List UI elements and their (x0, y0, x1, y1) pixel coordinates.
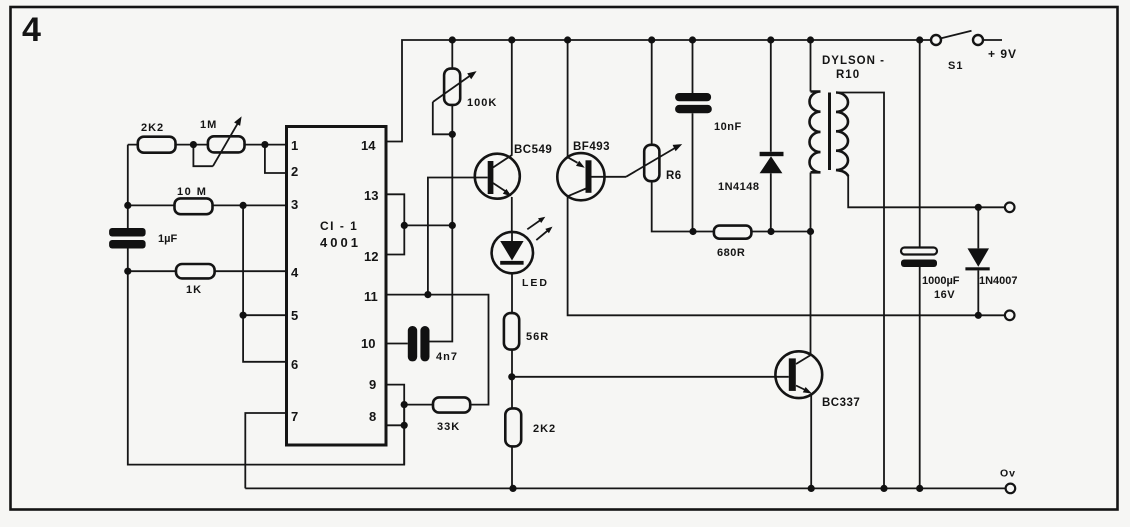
svg-text:10: 10 (361, 336, 375, 351)
svg-text:+ 9V: + 9V (988, 47, 1017, 61)
svg-text:56R: 56R (526, 331, 549, 343)
svg-text:4n7: 4n7 (436, 351, 458, 363)
svg-text:R6: R6 (666, 170, 682, 182)
svg-text:4: 4 (291, 265, 299, 280)
svg-text:13: 13 (364, 188, 378, 203)
svg-text:5: 5 (291, 308, 298, 323)
svg-text:2: 2 (291, 164, 298, 179)
svg-text:1M: 1M (200, 119, 217, 131)
svg-text:1µF: 1µF (158, 233, 177, 245)
svg-text:8: 8 (369, 409, 376, 424)
svg-text:LED: LED (522, 277, 549, 289)
svg-text:9: 9 (369, 377, 376, 392)
svg-text:100K: 100K (467, 97, 497, 109)
svg-text:1000µF: 1000µF (922, 275, 960, 287)
svg-text:4: 4 (22, 11, 41, 49)
svg-text:680R: 680R (717, 247, 745, 259)
svg-text:R10: R10 (836, 69, 860, 81)
svg-text:10nF: 10nF (714, 121, 742, 133)
svg-text:1N4007: 1N4007 (979, 275, 1018, 287)
svg-text:4001: 4001 (320, 235, 361, 250)
svg-text:BC337: BC337 (822, 397, 860, 409)
svg-text:6: 6 (291, 357, 298, 372)
svg-text:2K2: 2K2 (533, 423, 556, 435)
svg-text:33K: 33K (437, 421, 460, 433)
svg-text:1N4148: 1N4148 (718, 181, 760, 193)
svg-text:2K2: 2K2 (141, 122, 164, 134)
svg-text:11: 11 (364, 289, 378, 304)
svg-text:CI - 1: CI - 1 (320, 219, 358, 233)
svg-text:1K: 1K (186, 284, 202, 296)
svg-text:3: 3 (291, 197, 298, 212)
svg-text:BC549: BC549 (514, 144, 552, 156)
svg-text:BF493: BF493 (573, 141, 610, 153)
svg-text:S1: S1 (948, 60, 963, 72)
svg-text:DYLSON -: DYLSON - (822, 55, 885, 67)
svg-text:Ov: Ov (1000, 468, 1016, 480)
svg-text:16V: 16V (934, 289, 955, 301)
svg-text:1: 1 (291, 138, 298, 153)
svg-text:7: 7 (291, 409, 298, 424)
svg-text:14: 14 (361, 138, 376, 153)
svg-text:10 M: 10 M (177, 186, 207, 198)
svg-text:12: 12 (364, 249, 378, 264)
